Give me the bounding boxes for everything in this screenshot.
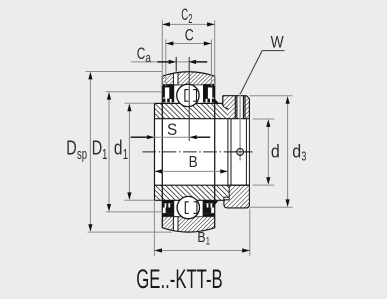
- dimension d3: [249, 95, 292, 97]
- inner ring top band hatch: [155, 103, 228, 118]
- svg-text:1: 1: [206, 236, 210, 248]
- sphere flat boundary white band top: [173, 70, 178, 85]
- horizontal centerline: [143, 151, 253, 153]
- seal top right: [203, 84, 214, 87]
- svg-text:d: d: [271, 141, 280, 161]
- collar top section outline: [223, 96, 250, 99]
- svg-text:S: S: [167, 120, 177, 139]
- collar recess notch (white): [224, 197, 229, 200]
- svg-text:C: C: [181, 6, 188, 24]
- dimension B1: [153, 201, 155, 256]
- svg-text:C: C: [137, 45, 146, 63]
- svg-text:1: 1: [102, 147, 107, 163]
- gap wedge top right: [215, 99, 219, 103]
- svg-text:2: 2: [188, 12, 192, 26]
- dimension C2: [161, 20, 163, 86]
- seal bottom left: [162, 201, 174, 204]
- svg-text:d: d: [114, 138, 123, 160]
- gap wedge bottom right: [215, 201, 219, 205]
- ball top: [177, 84, 199, 106]
- label W with leader: [262, 50, 284, 52]
- sleeve right face and collar bore silhouette lines: [227, 119, 229, 186]
- dimension C: [165, 39, 167, 86]
- dimension Ca: [131, 61, 207, 63]
- sleeve outlines: [155, 102, 223, 104]
- svg-text:B: B: [197, 230, 205, 246]
- svg-text:a: a: [145, 51, 151, 65]
- seal bottom right: [203, 201, 215, 204]
- dimension B: [155, 170, 228, 172]
- eccentric locking collar top section hatch: [223, 96, 250, 119]
- dimension d: [253, 118, 274, 120]
- dimension D1: [106, 91, 163, 93]
- ball bottom: [177, 196, 199, 218]
- outer ring sphere outline: [162, 72, 214, 232]
- collar bottom section outline: [224, 185, 250, 208]
- svg-text:B: B: [189, 154, 198, 171]
- inner ring bottom band hatch: [155, 185, 230, 200]
- svg-text:C: C: [185, 26, 194, 44]
- outer ring bottom crown hatch: [162, 217, 214, 234]
- ball center plane vertical line: [188, 57, 190, 141]
- svg-text:sp: sp: [77, 147, 87, 163]
- svg-text:W: W: [271, 34, 285, 52]
- svg-text:3: 3: [301, 148, 306, 163]
- lube hole axis: [239, 93, 241, 161]
- svg-text:d: d: [292, 141, 301, 161]
- dimension S: [131, 136, 211, 138]
- seal top left: [163, 84, 174, 87]
- lubrication hole slot: [237, 96, 244, 119]
- svg-text:1: 1: [123, 147, 128, 163]
- dimension Dsp: [86, 71, 163, 73]
- sphere flat boundary white band bottom: [173, 217, 178, 234]
- svg-text:GE..-KTT-B: GE..-KTT-B: [136, 264, 222, 294]
- outer ring top crown hatch: [162, 70, 214, 85]
- dimension d1: [124, 102, 154, 104]
- svg-text:D: D: [92, 138, 102, 160]
- lube hole circle on cylindrical surface: [237, 149, 244, 156]
- svg-text:D: D: [66, 138, 76, 160]
- bearing body white fill: [162, 72, 214, 232]
- eccentric locking collar bottom section hatch: [224, 185, 250, 208]
